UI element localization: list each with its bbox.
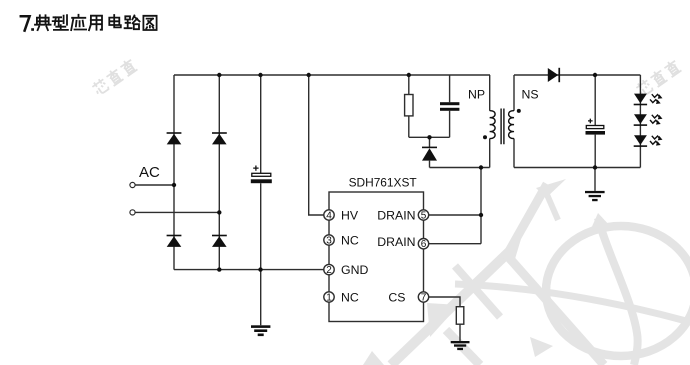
svg-text:3: 3 <box>326 235 332 246</box>
watermark logo flare tip P <box>590 213 611 231</box>
LED D8 arrows <box>650 115 660 123</box>
HV wire <box>309 75 325 215</box>
svg-text:NC: NC <box>341 233 359 247</box>
drain pin6 wire <box>428 243 481 245</box>
watermark logo arc E <box>455 284 690 322</box>
transformer secondary lead <box>513 75 515 168</box>
junction secondary top at C3 <box>593 73 597 77</box>
watermark logo band B <box>504 252 604 365</box>
svg-text:SDH761XST: SDH761XST <box>349 176 417 190</box>
watermark logo flare tip A3 <box>536 179 566 198</box>
LED D7 arrows <box>650 94 660 102</box>
watermark logo wedge T5 <box>363 351 384 365</box>
output capacitor C3 leads <box>594 75 596 168</box>
junction secondary bottom at C3 <box>593 165 597 169</box>
ground G2 stem <box>594 168 596 191</box>
capacitor C1 plates <box>252 173 271 176</box>
top rail wire <box>174 74 490 76</box>
svg-text:DRAIN: DRAIN <box>377 235 415 249</box>
junction bottom rail at D4 <box>217 267 221 271</box>
watermark text top-right <box>635 58 682 97</box>
watermark logo band A2 <box>455 266 500 317</box>
capacitor C1 leads <box>260 75 262 325</box>
LED string wire <box>639 75 641 168</box>
capacitor C1 plus sign <box>253 166 258 171</box>
junction top rail at HV <box>307 73 311 77</box>
LED D9 arrows <box>650 136 660 144</box>
watermark logo band A3 <box>508 184 547 253</box>
title char 应 <box>71 15 86 30</box>
junction top rail at D2 <box>217 73 221 77</box>
bridge vertical wire (leg 2) <box>218 75 220 270</box>
CS resistor lead <box>459 324 461 341</box>
svg-text:HV: HV <box>341 208 359 222</box>
title char 典 <box>35 15 51 30</box>
svg-text:5: 5 <box>421 210 427 221</box>
wire AC upper <box>135 184 174 186</box>
junction top rail at C1 <box>258 73 262 77</box>
svg-text:1: 1 <box>326 292 332 303</box>
svg-text:AC: AC <box>139 164 160 181</box>
output diode D6 <box>548 68 560 82</box>
watermark logo arc P <box>598 218 638 365</box>
pin 7 circle <box>418 292 428 302</box>
pin 3 circle <box>324 235 334 245</box>
AC terminal upper <box>130 182 135 187</box>
snubber diode D5 <box>422 147 437 161</box>
junction top rail at R1 <box>407 73 411 77</box>
output capacitor C3 plates <box>586 126 604 129</box>
pin 4 circle <box>324 210 334 220</box>
CS wire <box>428 297 460 307</box>
watermark logo ring <box>546 226 690 356</box>
title char 电 <box>109 15 121 27</box>
svg-text:NP: NP <box>468 88 485 102</box>
svg-text:6: 6 <box>421 239 427 250</box>
snubber capacitor C2 leads <box>449 75 451 137</box>
svg-text:4: 4 <box>326 210 332 221</box>
ground G1 <box>251 325 270 336</box>
junction primary bottom <box>479 165 483 169</box>
bottom rail wire <box>174 269 325 271</box>
secondary bottom wire <box>514 167 640 169</box>
junction drain wire <box>479 213 483 217</box>
pin 5 circle <box>418 210 428 220</box>
watermark logo band A1 <box>391 184 690 365</box>
drain vertical wire <box>480 168 482 244</box>
CS resistor R2 body <box>456 307 464 325</box>
pin 6 circle <box>418 239 428 249</box>
watermark logo band A2 tail <box>446 330 480 365</box>
watermark logo A1 tip <box>506 239 521 259</box>
diode D3 <box>167 235 182 247</box>
LED D7 <box>634 94 647 106</box>
pin 1 circle <box>324 292 334 302</box>
transformer core <box>501 109 504 145</box>
snubber diode D5 lead <box>429 137 431 167</box>
diode D1 <box>167 132 182 144</box>
title char 型 <box>53 15 68 30</box>
junction AC lower <box>217 210 221 214</box>
transformer primary lead <box>489 75 491 168</box>
watermark logo wedge T1 <box>427 303 459 337</box>
title char 用 <box>89 16 102 31</box>
svg-text:NC: NC <box>341 290 359 304</box>
LED D9 <box>634 135 647 147</box>
snubber bottom wire <box>409 136 450 138</box>
pin 2 circle <box>324 264 334 274</box>
snubber capacitor C2 plates <box>440 102 459 111</box>
title digit 7. <box>21 16 30 30</box>
title char 图 <box>143 16 156 30</box>
svg-text:GND: GND <box>341 263 368 277</box>
left bridge vertical wire (leg 1) <box>173 75 175 270</box>
drain pin5 wire <box>428 214 481 216</box>
title char 路 <box>125 16 140 30</box>
diode D4 <box>212 235 227 247</box>
IC U1 body <box>329 192 424 322</box>
junction bottom rail at C1 <box>258 267 262 271</box>
snubber resistor R1 body <box>405 95 413 116</box>
primary bottom wire <box>430 167 490 169</box>
svg-text:2: 2 <box>326 265 332 276</box>
diode D2 <box>212 132 227 144</box>
watermark logo wedge T2 <box>530 337 553 357</box>
snubber resistor R1 leads <box>408 75 410 137</box>
svg-text:NS: NS <box>522 88 539 102</box>
AC terminal lower <box>130 210 135 215</box>
secondary top wire <box>514 74 640 76</box>
watermark logo stub near tip <box>545 190 558 220</box>
svg-text:CS: CS <box>388 290 405 304</box>
NP phase dot <box>483 135 487 139</box>
svg-text:7: 7 <box>421 292 427 303</box>
ground G3 <box>451 341 470 350</box>
NS phase dot <box>517 109 521 113</box>
output capacitor C3 plus sign <box>588 119 593 124</box>
watermark text top-left <box>91 57 138 96</box>
transformer primary coil NP <box>490 111 495 139</box>
transformer secondary coil NS <box>509 111 514 139</box>
junction AC upper <box>172 183 176 187</box>
svg-text:DRAIN: DRAIN <box>377 208 415 222</box>
ground G2 <box>585 191 605 201</box>
junction snubber at D5 <box>427 135 431 139</box>
LED D8 <box>634 114 647 126</box>
wire AC lower <box>135 211 219 213</box>
